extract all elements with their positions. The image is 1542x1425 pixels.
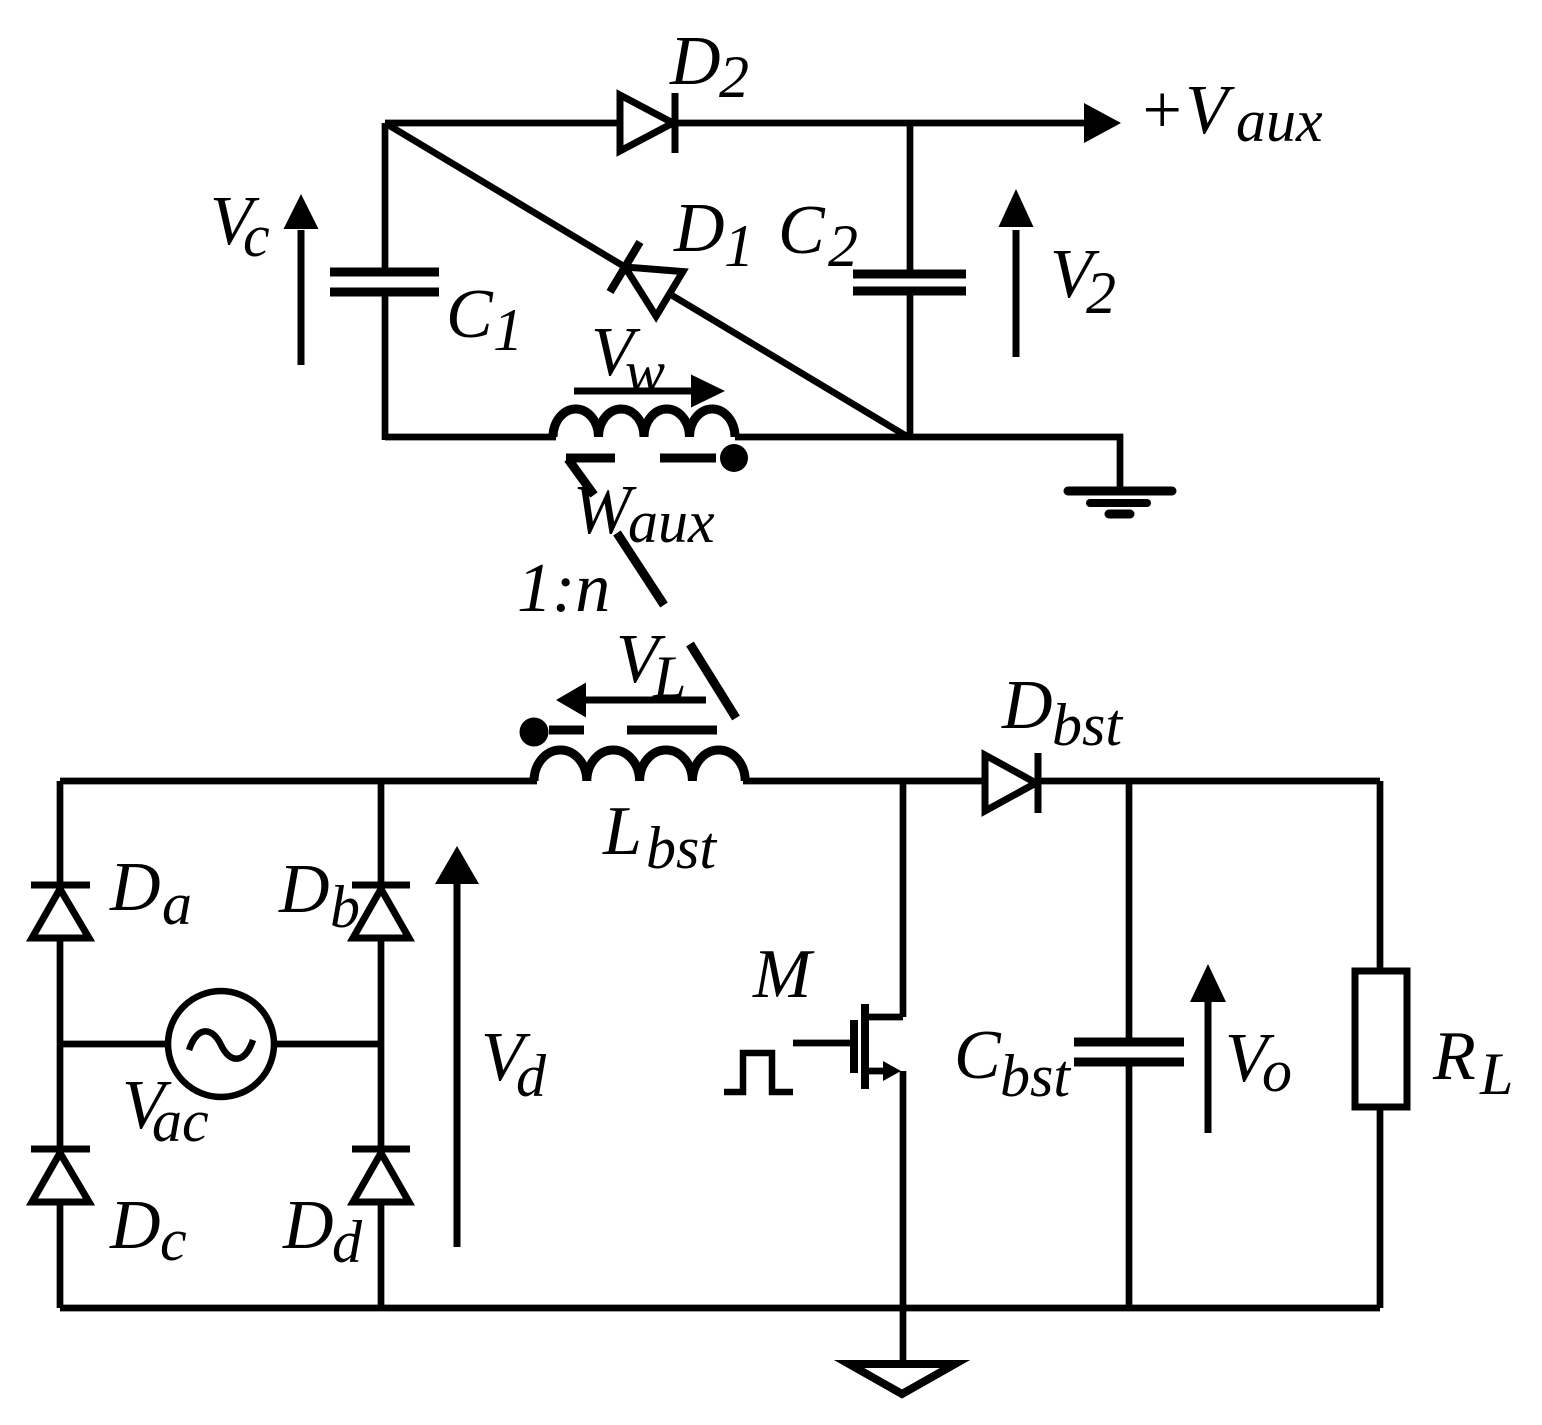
- ground stub (bottom): [900, 1308, 907, 1364]
- svg-text:L: L: [652, 644, 686, 710]
- coupling dash right under Waux: [660, 454, 716, 463]
- svg-text:o: o: [1262, 1038, 1292, 1104]
- core dash segment 2: [690, 644, 736, 718]
- wire bottom of lower circuit: [60, 1305, 1380, 1312]
- svg-text:1: 1: [724, 213, 754, 279]
- diode Db: [352, 885, 410, 938]
- core dash segment 1: [617, 533, 664, 605]
- svg-text:bst: bst: [646, 815, 717, 881]
- svg-text:2: 2: [1086, 260, 1116, 326]
- polarity dot Waux: [720, 444, 748, 472]
- diode Dd: [352, 1149, 410, 1202]
- arrow Vo: [1190, 964, 1226, 1133]
- svg-text:L: L: [602, 793, 642, 870]
- svg-text:1:n: 1:n: [517, 550, 610, 627]
- svg-text:w: w: [625, 339, 665, 405]
- bridge left leg middle: [57, 938, 64, 1149]
- svg-text:c: c: [160, 1207, 187, 1273]
- svg-text:bst: bst: [1000, 1043, 1071, 1109]
- svg-text:d: d: [516, 1043, 547, 1109]
- svg-text:D: D: [673, 190, 725, 267]
- svg-text:2: 2: [719, 44, 749, 110]
- coupling dash left above Lbst: [549, 726, 584, 735]
- svg-text:D: D: [1001, 667, 1053, 744]
- arrow Vc: [284, 194, 319, 365]
- svg-text:a: a: [162, 871, 192, 937]
- svg-text:1: 1: [493, 297, 523, 363]
- wire diagonal upper (node A to D1 cathode): [385, 123, 625, 267]
- wire top-left node to D2 anode: [385, 120, 620, 127]
- svg-text:M: M: [752, 936, 815, 1013]
- arrow Vd: [435, 846, 479, 1247]
- transistor M (MOSFET): [793, 781, 903, 1308]
- capacitor C1: [330, 123, 439, 440]
- +Vaux arrowhead: [1084, 103, 1121, 143]
- bridge right leg middle: [378, 938, 385, 1149]
- svg-text:C: C: [446, 276, 494, 353]
- bridge left leg lower: [57, 1202, 64, 1308]
- polarity dot Lbst: [520, 718, 549, 747]
- wire bottom of top circuit (right) to ground stub: [735, 437, 1120, 489]
- bridge right leg upper: [378, 781, 385, 885]
- arrow VL: [556, 683, 706, 718]
- wire bottom of top circuit (left): [385, 434, 556, 441]
- svg-text:D: D: [109, 849, 161, 926]
- diode Dc: [31, 1149, 90, 1202]
- wire diagonal lower (D1 anode to bottom node): [670, 294, 909, 437]
- svg-text:+V: +V: [1138, 72, 1235, 149]
- capacitor C2: [853, 123, 966, 440]
- svg-text:d: d: [332, 1209, 363, 1275]
- svg-text:R: R: [1432, 1018, 1476, 1095]
- coupling dash left under Waux: [566, 454, 615, 463]
- wire top of lower circuit (middle): [743, 778, 985, 785]
- core dash hook: [568, 459, 594, 495]
- diode D1: [610, 242, 683, 316]
- ground (top right): [1068, 491, 1172, 514]
- svg-text:C: C: [954, 1017, 1002, 1094]
- svg-text:aux: aux: [628, 489, 715, 555]
- wire top of lower circuit (right): [1038, 778, 1380, 785]
- svg-text:b: b: [330, 874, 360, 940]
- svg-text:bst: bst: [1052, 692, 1123, 758]
- arrow Vw: [574, 375, 725, 408]
- svg-text:c: c: [243, 203, 270, 269]
- bridge left leg upper: [57, 781, 64, 885]
- wire D2 cathode to +Vaux arrow: [675, 120, 1086, 127]
- wire middle left to source: [60, 1041, 168, 1048]
- capacitor Cbst: [1074, 781, 1184, 1308]
- ground (bottom): [849, 1364, 955, 1394]
- wire source to right leg: [274, 1041, 381, 1048]
- svg-text:2: 2: [828, 213, 858, 279]
- svg-text:L: L: [1479, 1041, 1513, 1107]
- winding Lbst: [534, 750, 745, 781]
- svg-text:ac: ac: [152, 1088, 209, 1154]
- wire top of lower circuit (left): [60, 778, 537, 785]
- diode D2: [620, 93, 675, 153]
- svg-text:aux: aux: [1236, 88, 1323, 154]
- gate pulse symbol: [724, 1053, 793, 1092]
- svg-text:D: D: [278, 851, 330, 928]
- bridge right leg lower: [378, 1202, 385, 1308]
- coupling dash right above Lbst: [627, 726, 717, 735]
- diode Da: [31, 885, 90, 938]
- AC source Vac: [168, 991, 274, 1097]
- svg-text:D: D: [282, 1187, 334, 1264]
- winding Waux: [553, 409, 735, 437]
- svg-text:C: C: [778, 192, 826, 269]
- svg-text:D: D: [109, 1187, 161, 1264]
- diode Dbst: [985, 753, 1038, 813]
- resistor RL: [1355, 781, 1407, 1308]
- arrow V2: [999, 189, 1034, 357]
- svg-text:D: D: [669, 23, 721, 100]
